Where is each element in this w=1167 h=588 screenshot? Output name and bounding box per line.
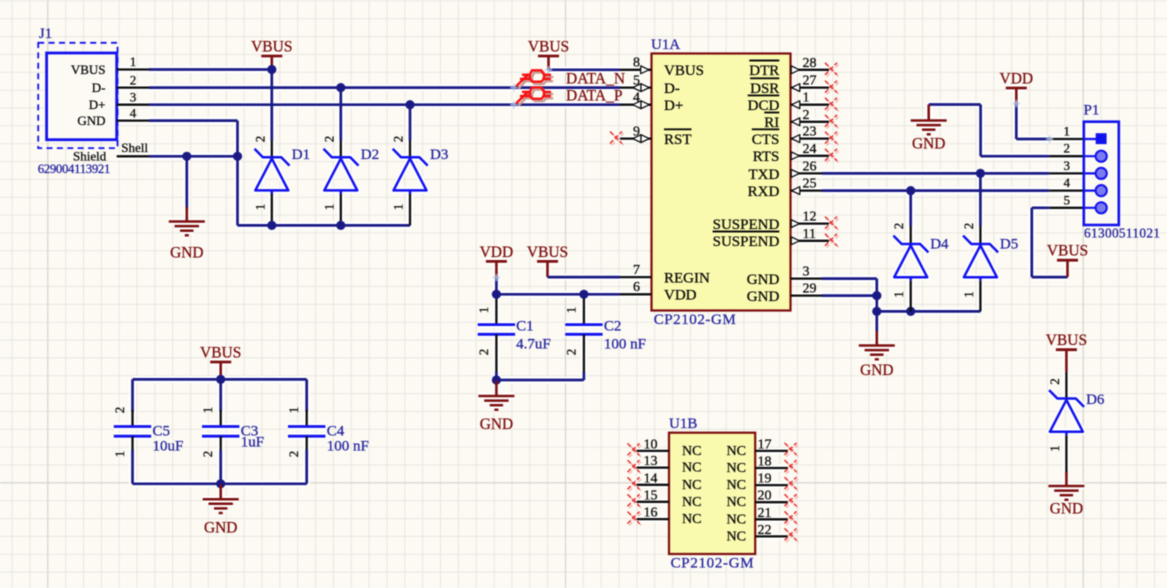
svg-text:CP2102-GM: CP2102-GM (671, 556, 754, 572)
svg-text:U1A: U1A (651, 37, 680, 53)
svg-text:2: 2 (286, 451, 301, 458)
svg-text:SUSPEND: SUSPEND (713, 234, 780, 250)
svg-text:GND: GND (170, 245, 203, 262)
svg-text:1uF: 1uF (241, 435, 264, 451)
svg-text:2: 2 (563, 349, 578, 356)
svg-text:VDD: VDD (664, 288, 697, 304)
svg-text:10: 10 (644, 437, 658, 452)
svg-text:17: 17 (758, 437, 772, 452)
svg-text:RXD: RXD (748, 184, 780, 200)
svg-text:D-: D- (92, 80, 106, 95)
svg-text:VDD: VDD (480, 244, 514, 261)
svg-text:1: 1 (1064, 124, 1071, 139)
svg-text:1: 1 (286, 407, 301, 414)
svg-text:GND: GND (747, 272, 780, 288)
svg-text:1: 1 (563, 307, 578, 314)
svg-text:20: 20 (758, 489, 772, 504)
svg-text:1: 1 (476, 307, 491, 314)
svg-text:GND: GND (912, 136, 945, 153)
svg-text:1: 1 (803, 91, 810, 106)
svg-text:2: 2 (1047, 378, 1062, 385)
svg-text:NC: NC (682, 495, 701, 510)
svg-text:D1: D1 (292, 147, 310, 163)
svg-text:61300511021: 61300511021 (1084, 226, 1160, 241)
svg-text:VBUS: VBUS (528, 39, 569, 56)
svg-text:1: 1 (321, 204, 336, 211)
svg-text:2: 2 (891, 223, 906, 230)
svg-text:10uF: 10uF (153, 439, 184, 455)
svg-text:Shell: Shell (121, 140, 148, 155)
svg-text:4: 4 (1064, 175, 1071, 190)
svg-text:CP2102-GM: CP2102-GM (654, 312, 736, 328)
svg-text:28: 28 (803, 56, 817, 71)
svg-text:C1: C1 (516, 319, 534, 335)
svg-text:U1B: U1B (669, 416, 697, 432)
svg-text:3: 3 (130, 89, 137, 104)
svg-text:1: 1 (200, 407, 215, 414)
svg-text:C4: C4 (327, 424, 345, 440)
svg-text:5: 5 (1064, 192, 1071, 207)
svg-text:100 nF: 100 nF (327, 439, 369, 455)
svg-text:6: 6 (633, 280, 640, 295)
svg-text:1: 1 (391, 204, 406, 211)
svg-text:3: 3 (1064, 158, 1071, 173)
svg-text:1: 1 (961, 291, 976, 298)
svg-text:2: 2 (200, 451, 215, 458)
svg-text:19: 19 (758, 472, 772, 487)
svg-text:2: 2 (391, 136, 406, 143)
svg-text:VBUS: VBUS (664, 63, 704, 79)
svg-text:3: 3 (803, 265, 810, 280)
svg-text:VBUS: VBUS (527, 244, 568, 261)
svg-text:VBUS: VBUS (1047, 243, 1088, 260)
svg-text:NC: NC (727, 529, 746, 544)
svg-text:27: 27 (803, 74, 817, 89)
svg-text:11: 11 (803, 227, 816, 242)
svg-text:29: 29 (803, 282, 817, 297)
svg-text:D5: D5 (1000, 237, 1018, 253)
svg-text:NC: NC (682, 478, 701, 493)
svg-text:J1: J1 (39, 26, 52, 42)
svg-text:P1: P1 (1084, 103, 1100, 119)
svg-text:TXD: TXD (748, 167, 779, 183)
svg-text:23: 23 (803, 125, 817, 140)
svg-text:D3: D3 (430, 147, 448, 163)
svg-text:NC: NC (682, 444, 701, 459)
svg-text:NC: NC (727, 512, 746, 527)
svg-text:D2: D2 (361, 147, 379, 163)
svg-text:2: 2 (252, 136, 267, 143)
svg-text:NC: NC (727, 478, 746, 493)
svg-text:C5: C5 (153, 424, 171, 440)
svg-text:GND: GND (204, 520, 237, 537)
svg-text:7: 7 (633, 263, 640, 278)
svg-text:GND: GND (77, 113, 105, 128)
svg-text:100 nF: 100 nF (604, 337, 646, 353)
svg-text:VBUS: VBUS (71, 62, 106, 77)
svg-text:CTS: CTS (752, 132, 780, 148)
svg-text:25: 25 (803, 177, 817, 192)
svg-text:2: 2 (321, 136, 336, 143)
svg-text:21: 21 (758, 506, 772, 521)
svg-text:13: 13 (644, 454, 658, 469)
svg-text:1: 1 (1047, 445, 1062, 452)
svg-text:NC: NC (682, 461, 701, 476)
svg-text:VDD: VDD (1000, 71, 1034, 88)
svg-text:1: 1 (112, 451, 127, 458)
svg-text:16: 16 (644, 506, 658, 521)
svg-text:DATA_N: DATA_N (566, 70, 625, 87)
svg-text:2: 2 (961, 223, 976, 230)
svg-text:NC: NC (727, 461, 746, 476)
svg-text:2: 2 (476, 349, 491, 356)
svg-text:D4: D4 (930, 237, 949, 253)
svg-text:8: 8 (633, 56, 640, 71)
svg-text:1: 1 (130, 54, 137, 69)
svg-text:GND: GND (1050, 501, 1083, 518)
svg-text:2: 2 (112, 407, 127, 414)
svg-text:VBUS: VBUS (1046, 332, 1087, 349)
svg-text:14: 14 (644, 471, 658, 486)
svg-text:VBUS: VBUS (251, 39, 292, 56)
svg-text:DTR: DTR (749, 63, 779, 79)
svg-text:GND: GND (747, 289, 780, 305)
svg-text:15: 15 (644, 488, 658, 503)
svg-text:12: 12 (803, 210, 817, 225)
svg-text:D+: D+ (89, 97, 106, 112)
svg-text:2: 2 (130, 72, 137, 87)
svg-text:629004113921: 629004113921 (38, 162, 111, 176)
svg-text:NC: NC (682, 512, 701, 527)
svg-text:VBUS: VBUS (200, 345, 241, 362)
svg-text:REGIN: REGIN (664, 271, 710, 287)
svg-text:RTS: RTS (753, 149, 780, 165)
svg-text:18: 18 (758, 455, 772, 470)
svg-text:2: 2 (1064, 141, 1071, 156)
svg-text:NC: NC (727, 495, 746, 510)
svg-text:1: 1 (891, 291, 906, 298)
svg-text:D-: D- (664, 81, 680, 97)
svg-text:GND: GND (860, 362, 893, 379)
svg-text:D6: D6 (1086, 392, 1105, 408)
svg-text:C2: C2 (604, 319, 622, 335)
svg-text:DATA_P: DATA_P (566, 87, 622, 104)
svg-text:RST: RST (664, 132, 692, 148)
svg-text:26: 26 (803, 159, 817, 174)
svg-text:4: 4 (130, 105, 137, 120)
svg-text:4.7uF: 4.7uF (516, 337, 551, 353)
svg-text:22: 22 (758, 523, 772, 538)
svg-text:1: 1 (252, 204, 267, 211)
svg-text:GND: GND (480, 416, 513, 433)
svg-text:24: 24 (803, 142, 817, 157)
svg-text:NC: NC (727, 444, 746, 459)
svg-text:2: 2 (803, 108, 810, 123)
svg-text:D+: D+ (664, 98, 683, 114)
